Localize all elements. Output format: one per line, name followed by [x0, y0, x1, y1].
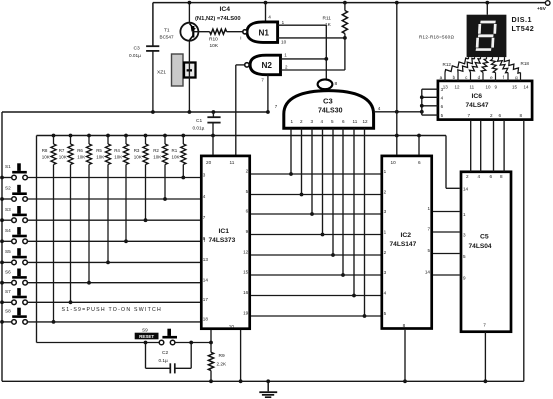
- svg-text:4: 4: [384, 290, 387, 295]
- svg-text:10K: 10K: [42, 155, 50, 160]
- svg-text:74LS04: 74LS04: [469, 243, 492, 250]
- svg-text:8: 8: [335, 81, 338, 87]
- svg-text:C3: C3: [134, 46, 141, 52]
- wire IC6 output 3 to C5 top: [493, 120, 495, 172]
- wire row S7 to IC1: [27, 301, 200, 303]
- svg-text:74LS147: 74LS147: [390, 241, 417, 248]
- svg-text:0.01µ: 0.01µ: [193, 125, 205, 130]
- switch S7 push-to-on: [0, 288, 27, 305]
- svg-text:10: 10: [486, 84, 492, 89]
- resistor R13 560 ohm: [458, 57, 475, 81]
- svg-text:12: 12: [243, 250, 249, 255]
- junction dots on upper rail: [151, 110, 270, 114]
- wire +5V top rail: [153, 3, 548, 47]
- op-amp gate N1 (NAND, mirrored): [240, 22, 277, 43]
- svg-text:S7: S7: [5, 289, 11, 294]
- resistor R16 560 ohm: [491, 57, 497, 81]
- capacitor C3: [129, 46, 159, 112]
- resistor R14 560 ohm: [469, 57, 480, 81]
- wire IC6 output 4 to C5 top: [503, 120, 505, 172]
- svg-text:7: 7: [483, 323, 486, 328]
- svg-text:R5: R5: [96, 148, 102, 153]
- wire 74LS30 input pin tap 7: [352, 128, 356, 297]
- label R18: [521, 61, 530, 66]
- svg-text:6: 6: [246, 209, 249, 214]
- svg-text:C3: C3: [323, 97, 333, 106]
- svg-text:R4: R4: [114, 148, 120, 153]
- resistor R9 2.2K: [208, 343, 227, 382]
- svg-text:4: 4: [321, 119, 324, 124]
- svg-text:10: 10: [391, 160, 397, 165]
- svg-text:8: 8: [500, 174, 503, 179]
- wire row S4 to IC1: [27, 240, 200, 242]
- resistor R17 560 ohm: [497, 57, 508, 81]
- wire bus row 4 IC1 to IC2: [251, 234, 381, 236]
- pin labels C5: [463, 174, 503, 328]
- svg-text:S1-S9=PUSH TO-ON SWITCH: S1-S9=PUSH TO-ON SWITCH: [62, 307, 162, 313]
- junction dots on ground rail: [209, 379, 270, 383]
- svg-text:C2: C2: [162, 350, 168, 356]
- svg-text:2.2K: 2.2K: [217, 361, 228, 366]
- svg-text:1: 1: [384, 169, 387, 174]
- switch S5 push-to-on: [0, 248, 27, 265]
- svg-text:74LS47: 74LS47: [466, 102, 489, 109]
- svg-text:BC547: BC547: [160, 34, 174, 39]
- svg-text:8: 8: [403, 323, 406, 328]
- resistor R5 10K: [96, 136, 110, 265]
- svg-text:R2: R2: [153, 148, 159, 153]
- svg-text:3: 3: [384, 270, 387, 275]
- resistor R15 560 ohm: [481, 57, 488, 81]
- svg-text:DIS.1: DIS.1: [512, 15, 532, 24]
- op-amp gate N2 (NAND, mirrored): [245, 55, 281, 74]
- svg-text:14: 14: [463, 187, 469, 192]
- resistor R3 10K: [134, 136, 148, 223]
- wire upper rail: [2, 112, 268, 381]
- switch S2 push-to-on: [0, 185, 27, 202]
- junction dots on lower rail: [52, 134, 421, 138]
- svg-text:S3: S3: [5, 207, 11, 212]
- svg-text:10K: 10K: [153, 155, 161, 160]
- resistor R7 10K: [59, 136, 73, 305]
- svg-text:0.01µ: 0.01µ: [129, 53, 141, 58]
- wire bus row 6 IC1 to IC2: [251, 274, 381, 276]
- svg-text:10K: 10K: [59, 155, 67, 160]
- svg-text:LT542: LT542: [512, 24, 535, 33]
- IC U6 74LS47 (IC6) body: [438, 81, 532, 120]
- svg-text:12: 12: [363, 119, 369, 124]
- output bubble pin 8 of 74LS30: [318, 79, 338, 89]
- switch S3 push-to-on: [0, 206, 27, 223]
- svg-text:15: 15: [243, 270, 249, 275]
- svg-text:N1: N1: [259, 28, 270, 37]
- svg-text:R6: R6: [77, 148, 83, 153]
- svg-text:8: 8: [203, 236, 206, 241]
- svg-text:IC4: IC4: [220, 6, 231, 13]
- op-amp C3 74LS30 8-input NAND body: [284, 91, 374, 129]
- wire IC2 pin 6 from lower rail: [418, 136, 420, 155]
- svg-text:10K: 10K: [96, 155, 104, 160]
- wire IC2 output 1 to C5: [433, 211, 460, 213]
- svg-text:S1: S1: [5, 164, 11, 169]
- wire 74LS30 input pin tap 4: [321, 128, 325, 236]
- resistor R11 1K: [323, 3, 348, 70]
- capacitor C2 0.1u: [146, 343, 192, 374]
- wire IC2 pin 8 to ground: [403, 330, 407, 383]
- wire bus row 1 IC1 to IC2: [251, 173, 381, 175]
- svg-text:18: 18: [203, 317, 209, 322]
- svg-text:R8: R8: [42, 148, 48, 153]
- svg-text:N2: N2: [262, 61, 273, 70]
- crystal XZ1 trimmer box: [184, 63, 196, 78]
- svg-text:5: 5: [427, 248, 430, 253]
- svg-text:1: 1: [291, 119, 294, 124]
- IC U5 74LS04 (C5) body: [461, 172, 511, 332]
- svg-text:2: 2: [384, 189, 387, 194]
- svg-text:15: 15: [512, 84, 518, 89]
- svg-text:4: 4: [378, 106, 381, 111]
- resistor R12 560 ohm: [445, 57, 469, 81]
- svg-text:R12-R18=560Ω: R12-R18=560Ω: [419, 34, 454, 39]
- svg-text:C5: C5: [480, 234, 489, 241]
- svg-text:4: 4: [203, 194, 206, 199]
- wire bus row 2 IC1 to IC2: [251, 194, 381, 196]
- svg-text:9: 9: [246, 229, 249, 234]
- crystal XZ1 body: [157, 54, 183, 86]
- wire 74LS30 input pin tap 1: [289, 128, 293, 176]
- wire IC2 output 2 to C5: [433, 231, 460, 233]
- wire ground rail: [2, 380, 524, 382]
- switch S6 push-to-on: [0, 269, 27, 286]
- svg-text:IC6: IC6: [472, 93, 483, 100]
- wire IC6 output 2 to C5 top: [480, 120, 482, 172]
- svg-text:XZ1: XZ1: [157, 70, 166, 76]
- svg-text:6: 6: [499, 113, 502, 118]
- svg-text:R18: R18: [521, 61, 530, 66]
- svg-text:C1: C1: [196, 118, 202, 124]
- resistor R2 10K: [153, 136, 167, 201]
- svg-text:10K: 10K: [77, 155, 85, 160]
- svg-text:5: 5: [463, 254, 466, 259]
- svg-text:16: 16: [243, 290, 249, 295]
- svg-text:3: 3: [463, 233, 466, 238]
- svg-text:10K: 10K: [172, 155, 180, 160]
- svg-text:5: 5: [246, 189, 249, 194]
- pin labels IC2: [384, 160, 431, 328]
- switch S9 RESET: [135, 327, 177, 345]
- svg-text:4: 4: [268, 14, 271, 19]
- svg-text:S9: S9: [142, 327, 148, 332]
- switch S8 push-to-on: [0, 308, 27, 325]
- transistor T1 BC547: [160, 3, 199, 112]
- pin number labels of 74LS30: [291, 119, 369, 124]
- svg-text:17: 17: [203, 297, 209, 302]
- capacitor C1 0.01u: [193, 112, 221, 136]
- wire IC6 left pins bus: [420, 89, 438, 115]
- svg-text:R1: R1: [172, 148, 178, 153]
- wire IC1 pin 10 to ground: [239, 330, 243, 383]
- svg-text:1: 1: [463, 212, 466, 217]
- label IC4 =74LS00: [195, 6, 241, 22]
- wire IC6 pin 8 to ground rail: [523, 120, 525, 381]
- svg-text:6: 6: [418, 160, 421, 165]
- svg-text:10K: 10K: [210, 43, 219, 49]
- wire 74LS30 input pin tap 6: [341, 128, 345, 277]
- wire C5 pin 14 supply branch: [446, 136, 460, 189]
- wire row S1 to IC1: [27, 177, 200, 179]
- svg-text:5: 5: [384, 311, 387, 316]
- IC U1 74LS373 (IC1) body: [201, 156, 249, 329]
- svg-text:10K: 10K: [134, 155, 142, 160]
- resistor R4 10K: [114, 136, 128, 244]
- wire IC1 pin 1 to reset row: [210, 330, 212, 343]
- label R12-R18 value: [419, 34, 454, 39]
- svg-text:2: 2: [490, 113, 493, 118]
- svg-text:2: 2: [246, 169, 249, 174]
- wire bus row 7 IC1 to IC2: [251, 295, 381, 297]
- svg-text:10K: 10K: [114, 155, 122, 160]
- wire IC2 output 3 to C5: [433, 253, 460, 255]
- svg-text:14: 14: [524, 84, 530, 89]
- wire IC2 output 4 to C5: [433, 274, 460, 276]
- svg-text:(N1,N2) =74LS00: (N1,N2) =74LS00: [195, 16, 241, 22]
- wire bus row 5 IC1 to IC2: [251, 254, 381, 256]
- resistor R18 560 ohm: [504, 57, 520, 81]
- pin 7 stub of N2 to upper rail: [261, 75, 278, 112]
- display DIS.1 LT542: [467, 3, 535, 58]
- svg-text:7: 7: [261, 78, 264, 83]
- wire IC1 pin 20 from lower rail: [212, 136, 214, 155]
- svg-text:74LS30: 74LS30: [318, 107, 343, 114]
- svg-text:S5: S5: [5, 249, 11, 254]
- wire lower rail (resistor commons): [37, 136, 447, 343]
- svg-text:S2: S2: [5, 186, 11, 191]
- svg-text:7: 7: [468, 113, 471, 118]
- svg-text:I: I: [240, 35, 241, 40]
- svg-text:11: 11: [353, 119, 358, 124]
- wire IC2 pin 10 from +5V rail: [396, 3, 398, 155]
- wire 74LS30 input pin tap 5: [331, 128, 335, 257]
- wire N1 input 2 to R11: [278, 36, 347, 44]
- wire 74LS30 input pin tap 8: [363, 128, 367, 318]
- svg-text:13: 13: [203, 257, 209, 262]
- svg-text:10: 10: [229, 324, 235, 329]
- svg-text:T1: T1: [164, 27, 170, 33]
- terminal +5V: [537, 1, 550, 13]
- svg-text:20: 20: [206, 160, 212, 165]
- svg-text:5: 5: [331, 119, 334, 124]
- wire N2 input 2 to R11: [281, 64, 345, 70]
- svg-text:8: 8: [520, 113, 523, 118]
- svg-text:IC2: IC2: [401, 232, 412, 239]
- svg-text:74LS373: 74LS373: [209, 237, 236, 244]
- svg-text:11: 11: [470, 84, 475, 89]
- segment letters a-g: [440, 75, 518, 80]
- svg-text:2: 2: [466, 174, 469, 179]
- switch S1 push-to-on: [0, 163, 27, 180]
- label R12: [443, 62, 452, 67]
- wire C5 pin 7 to ground: [484, 332, 488, 383]
- resistor R10 10K: [193, 29, 242, 49]
- svg-text:R12: R12: [443, 62, 452, 67]
- wire 74LS30 output pin 8 feedback: [324, 25, 328, 79]
- junction dots on +5V rail: [188, 1, 490, 5]
- wire row S6 to IC1: [27, 282, 200, 284]
- svg-text:11: 11: [230, 160, 235, 165]
- wire N2 output to IC1 pin 11: [236, 65, 245, 155]
- svg-text:12: 12: [455, 84, 461, 89]
- svg-text:IC1: IC1: [219, 228, 230, 235]
- wire N2 input 1: [281, 52, 327, 59]
- svg-text:2: 2: [384, 250, 387, 255]
- wire 74LS30 input pin tap 3: [310, 128, 314, 216]
- svg-text:19: 19: [243, 311, 249, 316]
- svg-text:S6: S6: [5, 269, 11, 274]
- wire N1 input 1: [278, 20, 327, 25]
- svg-text:S8: S8: [5, 309, 11, 314]
- wire row S5 to IC1: [27, 261, 200, 263]
- svg-text:9: 9: [463, 276, 466, 281]
- svg-text:RESET: RESET: [139, 334, 154, 339]
- svg-text:4: 4: [478, 174, 481, 179]
- pin 14 stub of N1 to +5V: [266, 3, 272, 21]
- svg-text:6: 6: [490, 174, 493, 179]
- svg-text:R11: R11: [323, 15, 332, 21]
- wire reset row: [37, 341, 213, 345]
- wire bus row 8 IC1 to IC2: [251, 315, 381, 317]
- wire 74LS30 input pin tap 2: [300, 128, 304, 196]
- svg-text:7: 7: [427, 226, 430, 231]
- svg-text:14: 14: [425, 269, 431, 274]
- wire IC6 output 1 to C5 top: [470, 120, 472, 172]
- svg-text:R3: R3: [134, 148, 140, 153]
- svg-text:S4: S4: [5, 228, 11, 233]
- pin labels IC6: [441, 84, 529, 118]
- svg-text:13: 13: [443, 84, 449, 89]
- resistor R1 10K: [172, 136, 186, 180]
- svg-text:R7: R7: [59, 148, 65, 153]
- svg-text:0.1µ: 0.1µ: [159, 358, 169, 363]
- resistor R8 10K: [42, 136, 56, 324]
- svg-text:R10: R10: [209, 36, 218, 42]
- svg-text:6: 6: [342, 119, 345, 124]
- svg-text:14: 14: [203, 278, 209, 283]
- label push-to-on note: [62, 307, 162, 313]
- wire row S3 to IC1: [27, 219, 200, 221]
- svg-text:3: 3: [311, 119, 314, 124]
- svg-text:2: 2: [300, 119, 303, 124]
- wire row S2 to IC1: [27, 198, 200, 200]
- pin labels IC1: [203, 160, 249, 329]
- svg-text:3: 3: [203, 172, 206, 177]
- svg-text:+5V: +5V: [537, 6, 547, 12]
- svg-text:1: 1: [384, 229, 387, 234]
- wire bus row 3 IC1 to IC2: [251, 213, 381, 215]
- svg-text:10: 10: [281, 39, 287, 44]
- IC U2 74LS147 (IC2) body: [382, 156, 432, 329]
- resistor R6 10K: [77, 136, 91, 285]
- svg-text:1: 1: [427, 206, 430, 211]
- switch S4 push-to-on: [0, 227, 27, 244]
- wire 74LS30 right side to IC6 bus: [374, 106, 424, 114]
- svg-text:R9: R9: [219, 353, 225, 359]
- svg-text:3: 3: [384, 209, 387, 214]
- svg-text:7: 7: [203, 215, 206, 220]
- ground symbol: [259, 381, 277, 398]
- wire row S8 to IC1: [27, 321, 200, 323]
